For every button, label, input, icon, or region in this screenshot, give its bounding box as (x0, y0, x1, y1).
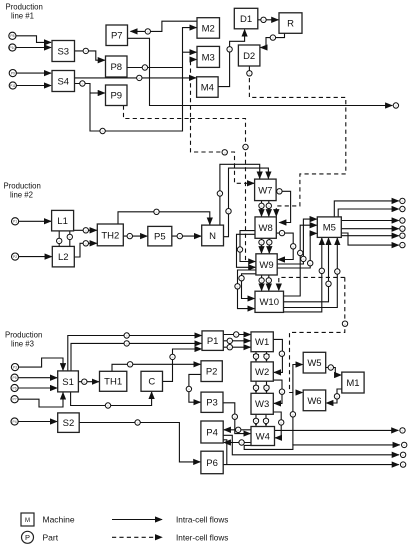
wire TH2 to P5 (123, 235, 147, 237)
wire TH2 top to N (118, 212, 210, 225)
wire in4 to S1 bot (18, 393, 63, 408)
svg-text:P6: P6 (13, 386, 17, 390)
svg-text:M: M (25, 518, 30, 524)
legend part circle (22, 531, 34, 543)
node L1-L2 b (67, 234, 72, 239)
node M5 out1 (400, 198, 405, 203)
svg-text:P4: P4 (13, 420, 17, 424)
node M5 feed2 (298, 250, 303, 255)
wire P9-in to S4 (16, 72, 51, 74)
box N (202, 225, 224, 246)
node M5 feed1 (301, 256, 306, 261)
node M5 out2 (400, 206, 405, 211)
node P1-W1 b (227, 338, 232, 343)
dashed to W10 top (279, 277, 345, 290)
node out3-2 (402, 442, 407, 447)
node S1 line2 (124, 341, 129, 346)
wire N to W7 b (224, 168, 269, 237)
part P4 in (11, 418, 18, 425)
part P6 in (11, 384, 18, 391)
box M4 (197, 77, 219, 98)
svg-text:TH1: TH1 (104, 377, 122, 388)
wire C to P1 (163, 349, 202, 381)
node S4 out (80, 81, 85, 86)
node S3 out (83, 48, 88, 53)
wire W9 right2 to M5 (277, 233, 317, 268)
node M1-W6 (334, 394, 339, 399)
svg-text:Production: Production (6, 3, 43, 12)
svg-text:N: N (209, 231, 216, 242)
node L1-TH2 (83, 228, 88, 233)
legend inter-cell arrow (112, 536, 162, 538)
wire P2 to P3 (189, 374, 201, 402)
node W5-M1 (328, 365, 333, 370)
wire P10-in to S3 (16, 47, 51, 49)
svg-text:W7: W7 (258, 185, 272, 196)
box W10 (255, 291, 284, 312)
wire W1 to W2 a (255, 352, 257, 362)
node W8 right2 (291, 244, 296, 249)
wire W2 right to W3 (273, 380, 282, 403)
node W5 feed (290, 412, 295, 417)
part P11 in (9, 82, 16, 89)
node S4-M4 (137, 75, 142, 80)
svg-text:C: C (148, 377, 155, 388)
box C (141, 371, 163, 391)
node W9-W10 a (259, 278, 264, 283)
node W7-W8 b (266, 203, 271, 208)
node W7-W8 a (259, 203, 264, 208)
dashed to W6 (290, 277, 345, 392)
svg-text:Part: Part (43, 533, 59, 543)
node dash W6 (342, 321, 347, 326)
box S3 (52, 41, 75, 62)
node S1 line1 (124, 333, 129, 338)
svg-text:M4: M4 (201, 82, 214, 93)
wire W10 to M5 b (284, 238, 338, 308)
wire S1 to TH1 (78, 381, 99, 383)
wire P1 to W1 c (223, 346, 250, 348)
svg-text:M3: M3 (202, 52, 215, 63)
wire W10 to M5 c (284, 238, 322, 312)
wire in1 to S1 top (19, 358, 64, 370)
node out3-3 (400, 452, 405, 457)
svg-text:W4: W4 (256, 431, 270, 442)
node M4-D1 (227, 47, 232, 52)
node P2-P3 (186, 386, 191, 391)
wire L1-L2 a (58, 231, 60, 247)
box W1 (251, 332, 273, 352)
node W8-W9 a (259, 240, 264, 245)
svg-text:P3: P3 (206, 398, 218, 409)
node W1-W2 b (264, 354, 269, 359)
wire W8 left to W9 (240, 231, 255, 262)
box S1 (58, 371, 79, 392)
svg-text:W8: W8 (259, 223, 273, 234)
wire M5 out 5 (341, 235, 398, 237)
wire branch to M3 (183, 51, 197, 53)
wire P6 long out (223, 464, 399, 466)
wire M5 out 3 (341, 220, 398, 222)
wire W10 to M5 a (284, 238, 329, 302)
svg-text:line #3: line #3 (11, 340, 34, 349)
svg-text:P4: P4 (206, 427, 218, 438)
box P7 (106, 25, 128, 46)
part P2 in (12, 253, 19, 260)
node P8 out (142, 65, 147, 70)
node W3-W4 b (263, 418, 268, 423)
svg-text:line #2: line #2 (10, 191, 33, 200)
svg-text:D2: D2 (243, 51, 255, 62)
svg-text:P7: P7 (111, 31, 123, 42)
wire W4 long out (275, 429, 399, 431)
node M5 out6 (400, 242, 405, 247)
wire W7 right to W8 (276, 191, 291, 222)
box W4 (251, 427, 275, 446)
box M5 (317, 217, 341, 238)
node W8 left (237, 247, 242, 252)
wire W2 to W3 b (266, 381, 268, 393)
part P10 in (9, 44, 16, 51)
node S2-P6 (135, 420, 140, 425)
box P9 (106, 85, 128, 106)
node N-W7 a (217, 191, 222, 196)
wire W8 left2 to W9 (237, 234, 256, 267)
wire in3 to S1 (18, 387, 57, 389)
svg-text:P2: P2 (206, 367, 218, 378)
wire M1 to W6 (326, 389, 342, 403)
dashed D2 to W8 (249, 71, 345, 217)
svg-text:P: P (25, 533, 30, 542)
wire P5 to N (172, 235, 201, 237)
part P7 in (11, 396, 18, 403)
wire L2 to TH2 (74, 243, 96, 257)
wire W9 right to M5 (277, 219, 317, 264)
wire W3 to W4 b (265, 414, 267, 426)
svg-text:W2: W2 (255, 367, 269, 378)
wire W9 left2 to W10 (238, 270, 256, 309)
wire P1 to W1 b (223, 340, 250, 342)
node D1-R (261, 17, 266, 22)
wire S3 to P8 (75, 51, 105, 60)
svg-text:P8: P8 (110, 62, 122, 73)
wire M2 to P7 (131, 21, 198, 31)
node W2 right (279, 389, 284, 394)
svg-text:M5: M5 (323, 223, 336, 234)
box W7 (255, 179, 277, 201)
svg-text:Production: Production (4, 181, 41, 190)
wire P4 long out1 (223, 435, 399, 455)
wire R to D2 (261, 33, 285, 47)
box W2 (251, 362, 273, 381)
node W10-M5 b (326, 281, 331, 286)
node W2-W3 a (253, 385, 258, 390)
box D1 (234, 8, 257, 29)
svg-text:P1: P1 (13, 220, 17, 224)
node P3-W4 (232, 414, 237, 419)
wire S4 loop to M2 (75, 28, 197, 131)
svg-text:R: R (287, 18, 294, 29)
wire S2-in (18, 421, 57, 423)
node W9 left (239, 276, 244, 281)
wire W1 right to W2 (273, 339, 282, 372)
wire in2 to S1 (18, 377, 57, 379)
wire W1 to W2 b (266, 352, 268, 362)
svg-text:S3: S3 (57, 46, 69, 57)
wire W9 to W10 b (268, 275, 270, 291)
part P5 in (11, 374, 18, 381)
wire W4 under to W5 (293, 365, 303, 445)
node W3 right (279, 420, 284, 425)
wire N to W7 a (220, 164, 260, 225)
wire W4 bottom long out (244, 445, 400, 450)
svg-text:Intra-cell flows: Intra-cell flows (176, 516, 228, 525)
node line1 out (393, 103, 398, 108)
svg-text:D1: D1 (240, 14, 252, 25)
svg-text:L2: L2 (58, 252, 69, 263)
wire W4 bot to P4 (224, 442, 251, 444)
wire W8 to W9 a (261, 238, 263, 253)
node M5 out3 (400, 218, 405, 223)
svg-text:S1: S1 (62, 377, 74, 388)
svg-text:P9: P9 (11, 71, 15, 75)
wire W8 right to W9 (276, 233, 293, 259)
node S1-C (105, 403, 110, 408)
svg-text:L1: L1 (57, 216, 68, 227)
box M2 (197, 18, 220, 39)
box P4 (201, 421, 223, 443)
wire P1-in to L1 (19, 220, 51, 222)
node M2-P7 (145, 29, 150, 34)
node W9-W10 b (266, 278, 271, 283)
svg-text:P7: P7 (13, 398, 17, 402)
wire D2 out stub (248, 66, 250, 71)
box P6 (201, 451, 223, 474)
wire TH1 to P2 (112, 364, 200, 371)
node W3-W4 a (253, 418, 258, 423)
node W9 left2 (235, 284, 240, 289)
svg-text:M2: M2 (202, 23, 215, 34)
node L2-TH2 (83, 241, 88, 246)
wire P8 out to bus (127, 67, 183, 69)
legend intra-cell arrow (112, 519, 162, 521)
svg-text:W10: W10 (259, 297, 279, 308)
wire S1 top out1 (68, 336, 202, 371)
part P1 in (12, 218, 19, 225)
wire M5 out 4 (341, 228, 398, 230)
node M5 out4 (400, 226, 405, 231)
node TH2-N (154, 209, 159, 214)
wire W2 to W3 a (255, 381, 257, 393)
node P1-W1 c (227, 345, 232, 350)
box D2 (238, 45, 260, 66)
box L2 (52, 246, 74, 267)
part P8 in (9, 32, 16, 39)
wire S2 to P6 (79, 423, 200, 462)
svg-text:P2: P2 (13, 255, 17, 259)
node S1-TH1 (82, 379, 87, 384)
node M5 out5 (400, 233, 405, 238)
svg-text:P8: P8 (10, 34, 14, 38)
box R (279, 13, 302, 34)
svg-text:P11: P11 (10, 84, 16, 88)
wire M5 out 1 (334, 201, 398, 217)
wire L1 to TH2 (74, 229, 97, 231)
wire W7 to W8 a (261, 201, 263, 217)
dashed P9 to M3 (124, 60, 197, 119)
wire W3 right to W4 (273, 412, 281, 438)
wire P1 to W1 a (223, 334, 250, 336)
svg-text:P10: P10 (9, 46, 15, 50)
node out3-1 (400, 428, 405, 433)
wire W7 to W8 b (268, 201, 270, 217)
svg-text:P5: P5 (154, 232, 166, 243)
node W8-W9 b (267, 240, 272, 245)
svg-text:Production: Production (5, 330, 42, 339)
node W7 right (277, 189, 282, 194)
wire W8 to W9 b (268, 238, 270, 253)
node W2-W3 b (264, 385, 269, 390)
box W9 (256, 254, 277, 275)
box P5 (148, 226, 172, 246)
wire S1 top out2 (71, 343, 201, 371)
wire W9 left to W10 (242, 274, 256, 299)
box L1 (52, 210, 74, 231)
svg-text:Inter-cell flows: Inter-cell flows (176, 533, 228, 542)
node W4-P4 (236, 427, 241, 432)
box S4 (52, 71, 75, 92)
wire P3 to W4 (223, 403, 250, 434)
box M1 (342, 372, 364, 393)
part P3 in (11, 364, 18, 371)
dashed P9 to W9 (191, 119, 246, 262)
node W1 right (279, 351, 284, 356)
box P1 (202, 331, 223, 351)
wire tee to P9 (90, 92, 105, 94)
wire S1 bot to C (71, 392, 152, 406)
node W4-P4 b (239, 440, 244, 445)
node R-D2 (270, 35, 275, 40)
svg-text:TH2: TH2 (101, 230, 119, 241)
node dash W7 (222, 150, 227, 155)
wire P4 out to P6 line (223, 440, 227, 465)
wire M5 out 6 (341, 233, 398, 245)
svg-text:W1: W1 (255, 337, 269, 348)
wire W9 to W10 a (261, 275, 263, 291)
wire W10 right to M5 left (284, 225, 317, 296)
box W6 (303, 390, 326, 411)
dashed P9 to W7 (191, 119, 255, 184)
svg-text:S4: S4 (57, 76, 69, 87)
box S2 (58, 413, 79, 433)
node out3-4 (400, 462, 405, 467)
wire M4 to D1 (218, 30, 245, 87)
svg-text:W5: W5 (307, 358, 321, 369)
box P3 (201, 392, 223, 412)
box W5 (303, 352, 326, 373)
svg-text:P6: P6 (206, 458, 218, 469)
box M3 (197, 46, 220, 67)
node TH1-P2 (127, 362, 132, 367)
wire P11-in to S4 (16, 85, 51, 87)
node dash vert (243, 144, 248, 149)
svg-text:M1: M1 (346, 378, 359, 389)
box P8 (106, 56, 128, 77)
legend machine box (21, 513, 34, 526)
box TH1 (100, 371, 127, 391)
node L1-L2 a (57, 238, 62, 243)
wire P2-in to L2 (19, 256, 52, 258)
svg-text:W3: W3 (255, 399, 269, 410)
wire P7 long out (128, 38, 393, 105)
svg-text:W9: W9 (259, 260, 273, 271)
node C-P1 (170, 354, 175, 359)
node N-W7 b (226, 209, 231, 214)
svg-text:P3: P3 (13, 365, 17, 369)
wire P8-in to S3 (16, 36, 51, 43)
svg-text:line #1: line #1 (11, 12, 34, 21)
svg-text:P5: P5 (13, 376, 17, 380)
wire S4 to M4 (75, 77, 197, 79)
svg-text:S2: S2 (63, 418, 75, 429)
node W1-W2 a (253, 354, 258, 359)
node W8 right (279, 230, 284, 235)
svg-text:W6: W6 (307, 396, 321, 407)
node W10-M5 a (319, 268, 324, 273)
wire W4 to P4 (224, 429, 251, 431)
node TH2-P5 (127, 233, 132, 238)
part P9 in (9, 70, 16, 77)
node D2 out (247, 71, 252, 76)
wire M5 out 2 (338, 209, 399, 217)
box P2 (201, 361, 222, 382)
svg-text:P9: P9 (110, 91, 122, 102)
node W10-M5 c (335, 269, 340, 274)
box W3 (251, 393, 273, 414)
node M5 feed3 (308, 261, 313, 266)
box TH2 (97, 224, 123, 246)
node P1-W1 a (234, 332, 239, 337)
node S4 loop (100, 128, 105, 133)
svg-text:Machine: Machine (43, 515, 75, 525)
wire W3 to W4 a (255, 414, 257, 426)
node P5-N (177, 233, 182, 238)
svg-text:P1: P1 (207, 336, 219, 347)
wire D1 to R (258, 19, 279, 21)
wire L1-L2 b (69, 231, 71, 247)
box W8 (255, 217, 276, 238)
wire W5 to M1 (326, 368, 342, 376)
